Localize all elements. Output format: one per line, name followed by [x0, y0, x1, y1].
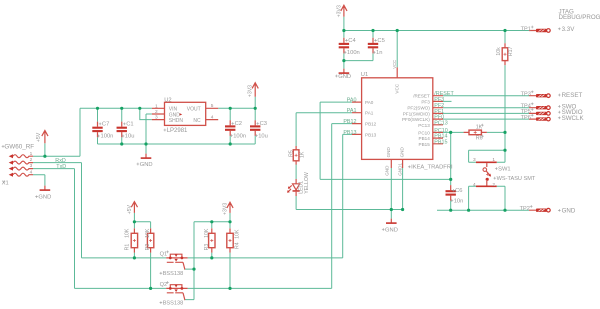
- svg-text:PB13: PB13: [343, 130, 356, 136]
- svg-text:R3: R3: [204, 244, 210, 251]
- svg-text:2: 2: [155, 109, 158, 115]
- svg-text:U2: U2: [164, 97, 171, 103]
- svg-text:BSS138: BSS138: [163, 271, 184, 277]
- svg-text:1: 1: [492, 157, 495, 163]
- svg-text:X1: X1: [2, 180, 9, 186]
- svg-text:DEBUG/PROG: DEBUG/PROG: [559, 14, 600, 21]
- svg-text:YELLOW: YELLOW: [304, 172, 310, 194]
- svg-text:10K: 10K: [204, 228, 210, 238]
- svg-text:10u: 10u: [258, 133, 268, 139]
- svg-text:/RESET: /RESET: [413, 94, 430, 99]
- svg-text:C3: C3: [260, 121, 267, 127]
- svg-text:IKEA_TRADFRI: IKEA_TRADFRI: [411, 165, 453, 171]
- svg-text:TP2: TP2: [520, 206, 530, 212]
- svg-text:SHDN: SHDN: [169, 118, 184, 124]
- svg-text:4: 4: [30, 169, 33, 175]
- svg-text:3: 3: [473, 157, 476, 163]
- svg-text:PB12: PB12: [343, 119, 356, 125]
- svg-text:PB15: PB15: [434, 139, 447, 145]
- svg-text:3.3V: 3.3V: [562, 26, 576, 33]
- svg-text:GND1: GND1: [398, 163, 403, 176]
- svg-text:PA0: PA0: [365, 100, 374, 105]
- svg-text:U1: U1: [361, 72, 368, 78]
- svg-text:GND: GND: [38, 195, 51, 201]
- svg-text:2: 2: [492, 182, 495, 188]
- svg-text:C2: C2: [235, 121, 242, 127]
- svg-text:+3V3: +3V3: [248, 85, 254, 97]
- svg-text:GND: GND: [399, 147, 404, 158]
- svg-text:R1: R1: [125, 244, 131, 251]
- svg-text:R17: R17: [508, 46, 514, 56]
- svg-text:LP2981: LP2981: [167, 128, 188, 134]
- svg-text:VOUT: VOUT: [187, 106, 201, 112]
- svg-text:+5V: +5V: [36, 132, 42, 142]
- svg-text:10K: 10K: [145, 228, 151, 238]
- svg-text:3: 3: [30, 163, 33, 169]
- svg-text:1: 1: [30, 151, 33, 157]
- svg-text:1: 1: [155, 103, 158, 109]
- svg-text:+3V3: +3V3: [336, 5, 342, 17]
- svg-text:SWCLK: SWCLK: [562, 115, 585, 122]
- svg-text:RxD: RxD: [55, 158, 66, 164]
- svg-text:C1: C1: [126, 122, 133, 128]
- svg-text:PA1: PA1: [365, 111, 374, 116]
- svg-text:GND: GND: [385, 227, 398, 233]
- svg-text:1K: 1K: [476, 124, 483, 130]
- svg-text:TP3: TP3: [521, 91, 531, 97]
- svg-text:Q2: Q2: [160, 282, 167, 288]
- svg-text:3: 3: [155, 115, 158, 121]
- svg-text:GND: GND: [338, 74, 351, 80]
- svg-text:PB14: PB14: [419, 136, 431, 141]
- svg-text:10K: 10K: [125, 228, 131, 238]
- svg-text:R4: R4: [235, 242, 241, 249]
- svg-text:2: 2: [30, 157, 33, 163]
- svg-text:VCC: VCC: [392, 60, 397, 69]
- svg-text:PC13: PC13: [434, 120, 448, 126]
- svg-text:100n: 100n: [347, 50, 360, 56]
- svg-text:10u: 10u: [125, 134, 135, 140]
- svg-text:10n: 10n: [454, 198, 464, 204]
- svg-text:GND: GND: [384, 165, 389, 176]
- svg-text:100n: 100n: [233, 133, 246, 139]
- svg-text:R6: R6: [476, 135, 483, 141]
- svg-text:WS-TASU SMT: WS-TASU SMT: [497, 176, 536, 182]
- svg-text:PA0: PA0: [347, 98, 357, 104]
- svg-text:4: 4: [211, 114, 214, 120]
- svg-text:C5: C5: [377, 38, 384, 44]
- svg-text:R2: R2: [145, 244, 151, 251]
- svg-text:10k: 10k: [496, 47, 502, 56]
- svg-text:SW1: SW1: [498, 167, 511, 173]
- svg-text:GND: GND: [562, 207, 576, 214]
- svg-text:GND: GND: [386, 147, 391, 158]
- svg-text:GND: GND: [140, 162, 153, 168]
- svg-text:PC13: PC13: [418, 123, 430, 128]
- svg-text:PF3: PF3: [434, 97, 444, 103]
- svg-text:1K: 1K: [299, 151, 305, 158]
- svg-text:C6: C6: [455, 188, 462, 194]
- svg-text:C7: C7: [102, 122, 109, 128]
- svg-text:1n: 1n: [376, 50, 382, 56]
- svg-text:VIN: VIN: [169, 106, 178, 112]
- svg-text:C4: C4: [348, 38, 356, 44]
- svg-text:PF1(SWDIO): PF1(SWDIO): [403, 111, 431, 116]
- svg-text:PF0(SWCLK): PF0(SWCLK): [402, 117, 430, 122]
- svg-text:PB15: PB15: [419, 142, 431, 147]
- svg-text:4: 4: [473, 182, 476, 188]
- svg-text:R5: R5: [289, 150, 295, 157]
- svg-text:+5V: +5V: [127, 204, 133, 214]
- svg-text:TP1: TP1: [521, 27, 531, 33]
- svg-text:BSS138: BSS138: [163, 301, 184, 307]
- svg-text:100n: 100n: [101, 134, 114, 140]
- svg-text:+3V3: +3V3: [222, 203, 228, 215]
- svg-text:TP6: TP6: [521, 115, 531, 121]
- svg-text:PB12: PB12: [365, 122, 377, 127]
- svg-text:PC10: PC10: [418, 130, 430, 135]
- svg-text:TxD: TxD: [56, 164, 66, 170]
- svg-text:NC: NC: [193, 118, 201, 124]
- svg-text:PB13: PB13: [365, 132, 377, 137]
- svg-text:RESET: RESET: [562, 92, 583, 99]
- svg-text:5: 5: [211, 103, 214, 109]
- svg-text:PF3: PF3: [421, 99, 430, 104]
- svg-text:Q1: Q1: [160, 251, 167, 257]
- svg-text:PA1: PA1: [347, 108, 357, 114]
- svg-text:10K: 10K: [235, 229, 241, 239]
- svg-text:VCC: VCC: [395, 83, 400, 93]
- svg-text:GW60_RF: GW60_RF: [4, 143, 34, 150]
- svg-text:PF2(SWO): PF2(SWO): [407, 106, 430, 111]
